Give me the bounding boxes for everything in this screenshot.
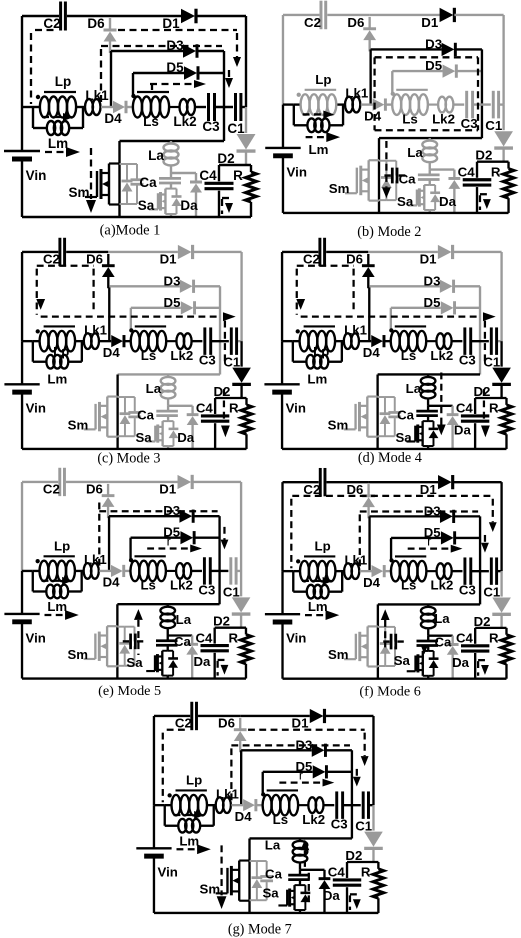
- svg-text:C1: C1: [483, 585, 500, 600]
- svg-text:Lk2: Lk2: [170, 348, 193, 363]
- svg-text:C2: C2: [43, 252, 60, 267]
- svg-text:Sm: Sm: [328, 647, 349, 662]
- svg-text:Sa: Sa: [395, 430, 412, 445]
- svg-text:Ca: Ca: [265, 867, 283, 882]
- svg-text:Da: Da: [194, 654, 212, 669]
- svg-text:Lp: Lp: [53, 344, 69, 359]
- svg-text:D5: D5: [425, 58, 443, 73]
- svg-text:Ls: Ls: [401, 578, 416, 593]
- svg-text:Sm: Sm: [200, 881, 221, 896]
- svg-text:Ls: Ls: [140, 578, 155, 593]
- svg-text:Ls: Ls: [273, 812, 288, 827]
- svg-text:La: La: [406, 381, 422, 396]
- svg-text:C3: C3: [461, 116, 478, 131]
- svg-text:D1: D1: [159, 482, 176, 497]
- svg-text:Ca: Ca: [139, 175, 157, 190]
- svg-text:C2: C2: [303, 252, 320, 267]
- svg-text:D3: D3: [163, 503, 180, 518]
- svg-text:D4: D4: [363, 575, 381, 590]
- svg-text:Lk1: Lk1: [216, 786, 239, 801]
- svg-text:D1: D1: [160, 252, 177, 267]
- svg-text:D3: D3: [425, 36, 442, 51]
- svg-text:Sa: Sa: [262, 885, 279, 900]
- svg-text:C4: C4: [195, 630, 213, 645]
- svg-text:Lk2: Lk2: [430, 348, 453, 363]
- svg-text:D6: D6: [347, 15, 364, 30]
- svg-text:D4: D4: [364, 108, 382, 123]
- svg-text:Vin: Vin: [158, 865, 178, 880]
- svg-text:D4: D4: [235, 809, 253, 824]
- svg-text:(b) Mode 2: (b) Mode 2: [357, 224, 421, 240]
- svg-text:D3: D3: [295, 737, 312, 752]
- svg-text:R: R: [229, 401, 239, 416]
- svg-text:C3: C3: [331, 817, 348, 832]
- svg-text:C2: C2: [43, 482, 60, 497]
- svg-text:D6: D6: [218, 716, 235, 731]
- svg-text:D2: D2: [474, 384, 491, 399]
- svg-text:C3: C3: [199, 353, 216, 368]
- svg-text:Vin: Vin: [287, 165, 307, 180]
- svg-text:R: R: [228, 630, 238, 645]
- svg-text:(g) Mode 7: (g) Mode 7: [228, 922, 292, 938]
- svg-text:R: R: [489, 401, 499, 416]
- svg-text:Sa: Sa: [135, 430, 152, 445]
- svg-text:D3: D3: [424, 503, 441, 518]
- svg-text:Vin: Vin: [26, 630, 46, 645]
- svg-text:D5: D5: [424, 295, 441, 310]
- svg-text:(a)Mode 1: (a)Mode 1: [100, 223, 161, 239]
- svg-text:Ls: Ls: [141, 348, 156, 363]
- svg-text:C4: C4: [458, 165, 476, 180]
- svg-text:Lk2: Lk2: [173, 114, 196, 129]
- svg-text:Sm: Sm: [67, 647, 88, 662]
- svg-text:(c) Mode 3: (c) Mode 3: [97, 450, 160, 466]
- svg-text:D3: D3: [164, 273, 181, 288]
- svg-text:Da: Da: [323, 888, 341, 903]
- svg-text:C1: C1: [227, 121, 245, 136]
- svg-text:Vin: Vin: [286, 401, 306, 416]
- svg-text:Lk1: Lk1: [84, 552, 107, 567]
- svg-text:D1: D1: [420, 252, 437, 267]
- svg-text:D6: D6: [346, 252, 363, 267]
- svg-text:Lk2: Lk2: [432, 111, 455, 126]
- svg-text:R: R: [233, 168, 243, 183]
- svg-text:La: La: [434, 611, 450, 626]
- svg-text:C1: C1: [355, 819, 372, 834]
- svg-text:Ls: Ls: [401, 348, 416, 363]
- svg-text:Lp: Lp: [55, 74, 72, 89]
- svg-text:C2: C2: [303, 482, 320, 497]
- svg-text:La: La: [148, 148, 164, 163]
- svg-text:Ca: Ca: [399, 171, 417, 186]
- svg-text:D2: D2: [475, 148, 492, 163]
- svg-text:D4: D4: [103, 575, 121, 590]
- svg-text:C1: C1: [223, 584, 240, 599]
- svg-text:Lm: Lm: [308, 142, 328, 157]
- svg-text:Lm: Lm: [179, 833, 199, 848]
- svg-text:Vin: Vin: [26, 168, 47, 183]
- svg-text:C2: C2: [304, 15, 321, 30]
- svg-text:C1: C1: [485, 118, 503, 133]
- svg-text:D2: D2: [217, 151, 234, 166]
- svg-text:La: La: [146, 381, 162, 396]
- svg-text:Ca: Ca: [174, 634, 192, 649]
- svg-text:Sa: Sa: [397, 194, 414, 209]
- svg-text:Lp: Lp: [54, 538, 70, 553]
- svg-text:Lk1: Lk1: [85, 88, 109, 103]
- svg-text:Ca: Ca: [137, 408, 155, 423]
- svg-text:D3: D3: [166, 38, 184, 53]
- svg-text:Lp: Lp: [313, 344, 329, 359]
- svg-text:D5: D5: [166, 60, 184, 75]
- svg-text:D1: D1: [421, 15, 439, 30]
- svg-text:Lk2: Lk2: [431, 578, 454, 593]
- svg-text:R: R: [361, 865, 371, 880]
- svg-text:La: La: [407, 145, 423, 160]
- svg-text:(e) Mode 5: (e) Mode 5: [98, 683, 161, 699]
- svg-text:C3: C3: [459, 353, 476, 368]
- svg-text:D6: D6: [86, 252, 103, 267]
- svg-text:D6: D6: [346, 482, 363, 497]
- svg-text:Da: Da: [177, 430, 195, 445]
- svg-text:D3: D3: [424, 273, 441, 288]
- svg-text:Sm: Sm: [328, 417, 349, 432]
- svg-text:Lm: Lm: [47, 371, 67, 386]
- svg-text:Lm: Lm: [47, 599, 67, 614]
- svg-text:Ca: Ca: [434, 634, 452, 649]
- svg-text:C1: C1: [483, 355, 500, 370]
- svg-text:Lp: Lp: [315, 539, 331, 554]
- svg-text:Lm: Lm: [308, 599, 328, 614]
- svg-text:D1: D1: [162, 16, 180, 31]
- svg-text:Da: Da: [452, 655, 470, 670]
- svg-text:Ls: Ls: [402, 111, 418, 126]
- svg-text:D4: D4: [363, 345, 381, 360]
- svg-text:C3: C3: [202, 119, 220, 134]
- svg-text:C2: C2: [175, 716, 192, 731]
- svg-text:Lk1: Lk1: [344, 322, 367, 337]
- svg-text:Ls: Ls: [143, 114, 159, 129]
- svg-text:D2: D2: [213, 614, 230, 629]
- svg-text:C4: C4: [456, 631, 474, 646]
- svg-text:D1: D1: [292, 716, 309, 731]
- svg-text:R: R: [489, 631, 499, 646]
- svg-text:D6: D6: [87, 16, 105, 31]
- svg-text:Lk1: Lk1: [345, 86, 368, 101]
- svg-text:C4: C4: [196, 401, 214, 416]
- svg-text:Lk2: Lk2: [170, 578, 193, 593]
- svg-text:Lk2: Lk2: [302, 812, 325, 827]
- svg-text:D4: D4: [103, 345, 121, 360]
- svg-text:C2: C2: [43, 16, 60, 31]
- svg-text:Lp: Lp: [315, 72, 331, 87]
- svg-text:Sm: Sm: [68, 417, 89, 432]
- svg-text:Da: Da: [439, 194, 457, 209]
- svg-text:La: La: [176, 612, 192, 627]
- svg-text:(f) Mode 6: (f) Mode 6: [359, 684, 420, 700]
- svg-text:Lk1: Lk1: [344, 552, 367, 567]
- svg-text:C1: C1: [223, 355, 240, 370]
- svg-text:D2: D2: [345, 848, 362, 863]
- svg-text:C3: C3: [198, 582, 215, 597]
- svg-text:Sa: Sa: [126, 655, 143, 670]
- svg-text:r: r: [299, 768, 304, 783]
- svg-text:Da: Da: [454, 422, 472, 437]
- svg-text:Lm: Lm: [307, 371, 327, 386]
- svg-text:D6: D6: [86, 482, 103, 497]
- svg-text:D2: D2: [214, 384, 231, 399]
- svg-text:C4: C4: [456, 401, 474, 416]
- svg-text:(d) Mode 4: (d) Mode 4: [358, 450, 422, 466]
- svg-text:D4: D4: [104, 111, 122, 126]
- svg-text:Lk1: Lk1: [84, 322, 107, 337]
- svg-text:D2: D2: [474, 614, 491, 629]
- svg-text:D5: D5: [164, 295, 181, 310]
- svg-text:Vin: Vin: [26, 401, 46, 416]
- svg-text:Da: Da: [180, 198, 198, 213]
- svg-text:Sa: Sa: [138, 198, 155, 213]
- svg-text:Sm: Sm: [68, 185, 89, 200]
- svg-text:Sa: Sa: [394, 653, 411, 668]
- svg-text:C3: C3: [459, 583, 476, 598]
- svg-text:Sm: Sm: [329, 181, 350, 196]
- svg-text:Ca: Ca: [397, 408, 415, 423]
- svg-text:D1: D1: [420, 482, 437, 497]
- svg-text:Vin: Vin: [286, 631, 306, 646]
- svg-text:Lm: Lm: [48, 136, 68, 151]
- svg-text:R: R: [491, 165, 501, 180]
- svg-text:C4: C4: [328, 865, 346, 880]
- svg-text:Lp: Lp: [186, 773, 202, 788]
- svg-text:C4: C4: [199, 168, 217, 183]
- svg-text:La: La: [265, 837, 281, 852]
